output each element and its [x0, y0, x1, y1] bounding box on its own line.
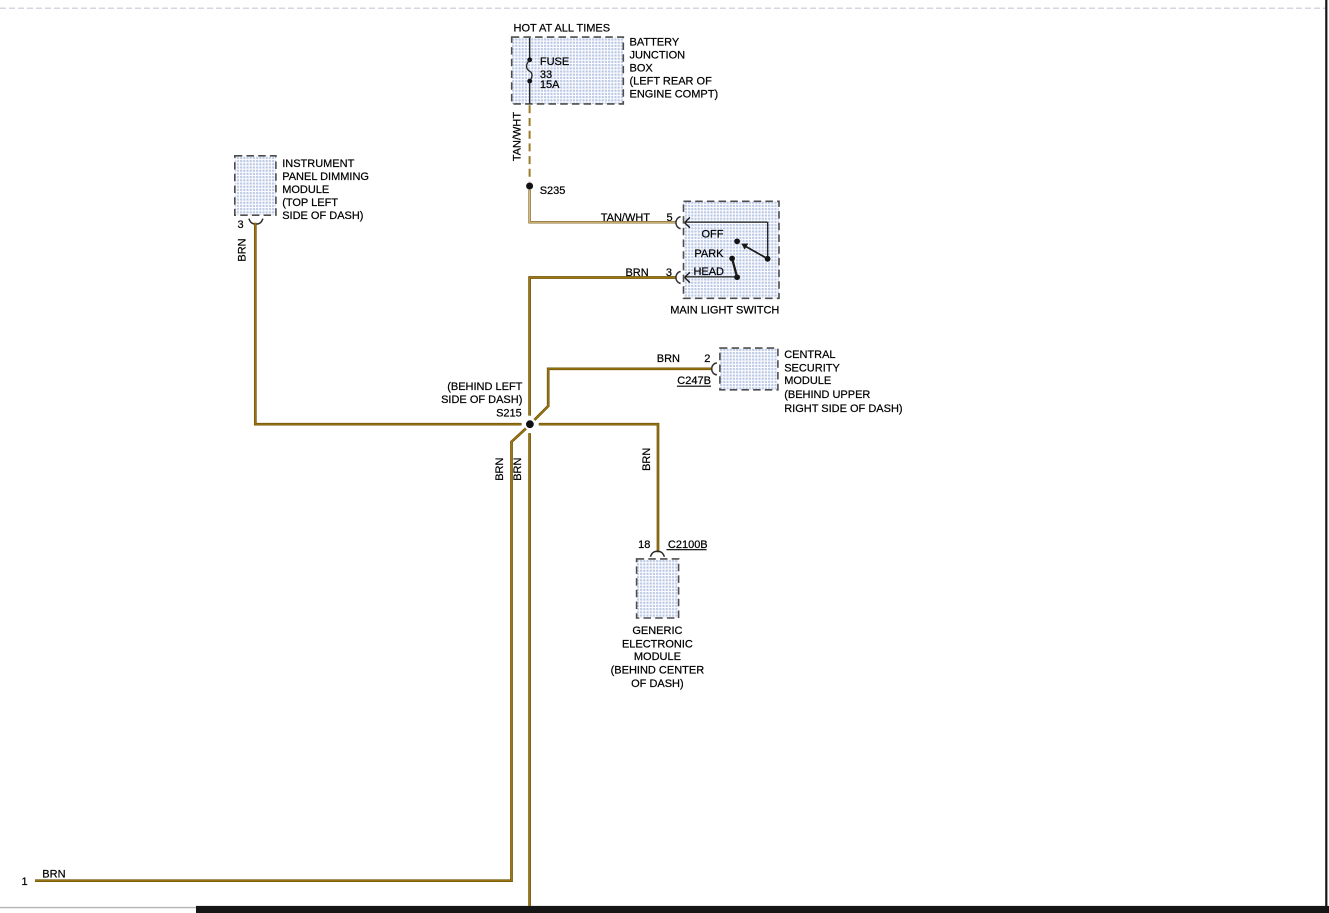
svg-text:CENTRAL: CENTRAL	[784, 349, 835, 361]
svg-text:FUSE: FUSE	[540, 56, 569, 68]
svg-text:BRN: BRN	[657, 353, 680, 365]
svg-text:(BEHIND UPPER: (BEHIND UPPER	[784, 389, 870, 401]
svg-text:BRN: BRN	[641, 448, 653, 471]
connector arc pin 3	[676, 272, 681, 284]
svg-text:BRN: BRN	[42, 869, 65, 881]
svg-text:OF DASH): OF DASH)	[631, 678, 684, 690]
svg-text:BOX: BOX	[630, 63, 654, 75]
svg-text:C247B: C247B	[677, 375, 711, 387]
fuse 33 15A element	[529, 38, 531, 58]
svg-text:BATTERY: BATTERY	[630, 36, 680, 48]
svg-text:MODULE: MODULE	[784, 375, 831, 387]
generic electronic module box	[637, 559, 679, 618]
node S215	[526, 420, 534, 428]
svg-text:BRN: BRN	[625, 267, 648, 279]
svg-text:RIGHT SIDE OF DASH): RIGHT SIDE OF DASH)	[784, 403, 902, 415]
wire BRN switch pin 3 to S215	[530, 278, 677, 416]
wire TAN/WHT fuse box to S235 (dashed)	[529, 105, 531, 182]
svg-text:C2100B: C2100B	[668, 539, 708, 551]
svg-text:BRN: BRN	[494, 458, 506, 481]
svg-text:HEAD: HEAD	[693, 266, 724, 278]
wire BRN instrument module to S215	[255, 223, 521, 424]
svg-text:S235: S235	[540, 185, 566, 197]
svg-text:TAN/WHT: TAN/WHT	[511, 112, 523, 162]
svg-text:1: 1	[21, 876, 27, 888]
wire BRN S215 down to page bottom	[528, 433, 531, 906]
node S235	[526, 183, 533, 190]
svg-text:(TOP LEFT: (TOP LEFT	[282, 197, 338, 209]
svg-text:ENGINE COMPT): ENGINE COMPT)	[630, 89, 719, 101]
svg-text:SIDE OF DASH): SIDE OF DASH)	[282, 210, 363, 222]
main light switch box	[684, 201, 780, 298]
svg-text:SIDE OF DASH): SIDE OF DASH)	[441, 394, 522, 406]
connector arc instrument panel module	[249, 219, 263, 225]
wire TAN/WHT S235 to main light switch pin 5	[530, 190, 677, 222]
svg-text:15A: 15A	[540, 79, 560, 91]
svg-text:INSTRUMENT: INSTRUMENT	[282, 158, 354, 170]
main light switch internal contacts	[686, 221, 768, 223]
svg-text:OFF: OFF	[702, 228, 724, 240]
svg-text:ELECTRONIC: ELECTRONIC	[622, 639, 693, 651]
wire BRN S215 to C247B	[534, 369, 712, 420]
svg-text:MAIN LIGHT SWITCH: MAIN LIGHT SWITCH	[670, 305, 779, 317]
svg-text:S215: S215	[496, 407, 522, 419]
svg-text:PANEL DIMMING: PANEL DIMMING	[282, 171, 369, 183]
battery junction box	[512, 37, 624, 104]
svg-text:2: 2	[704, 353, 710, 365]
svg-text:(BEHIND CENTER: (BEHIND CENTER	[611, 664, 705, 676]
instrument panel dimming module box	[235, 156, 276, 215]
svg-text:SECURITY: SECURITY	[784, 362, 840, 374]
svg-text:GENERIC: GENERIC	[632, 625, 682, 637]
wire BRN S215 to C2100B	[539, 424, 658, 552]
page frame (decorative)	[0, 7, 1326, 9]
svg-text:3: 3	[237, 219, 243, 231]
connector arc pin 5	[676, 217, 681, 229]
svg-text:PARK: PARK	[694, 248, 724, 260]
svg-text:18: 18	[638, 539, 650, 551]
svg-text:MODULE: MODULE	[282, 184, 329, 196]
wire BRN S215 to terminal 1 (bottom left)	[35, 429, 526, 881]
svg-text:(BEHIND LEFT: (BEHIND LEFT	[447, 381, 522, 393]
central security module box	[720, 348, 778, 390]
svg-text:TAN/WHT: TAN/WHT	[601, 212, 651, 224]
svg-text:3: 3	[666, 267, 672, 279]
svg-text:HOT AT ALL TIMES: HOT AT ALL TIMES	[514, 22, 611, 34]
svg-text:BRN: BRN	[237, 238, 249, 261]
svg-text:(LEFT REAR OF: (LEFT REAR OF	[630, 76, 713, 88]
connector arc C2100B	[650, 551, 664, 557]
svg-text:5: 5	[666, 212, 672, 224]
svg-text:BRN: BRN	[512, 458, 524, 481]
connector arc C247B	[712, 363, 717, 375]
svg-text:MODULE: MODULE	[634, 651, 681, 663]
svg-text:JUNCTION: JUNCTION	[630, 49, 686, 61]
